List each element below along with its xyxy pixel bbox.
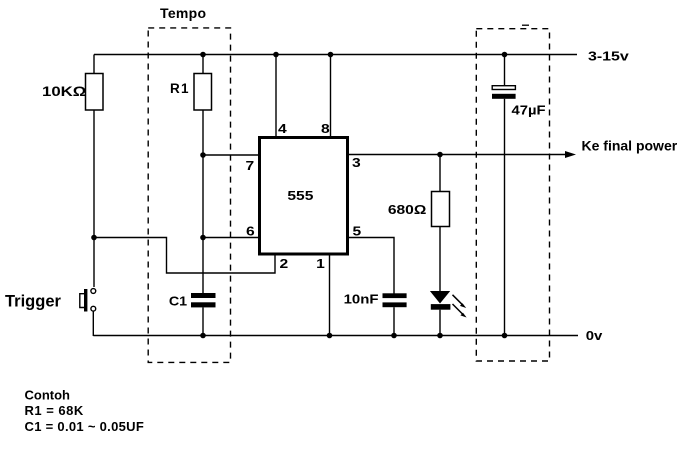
svg-text:R1: R1: [170, 81, 190, 96]
junction node rail/R1: [200, 52, 206, 58]
resistor 10K ohm: [86, 74, 104, 111]
svg-text:R1 = 68K: R1 = 68K: [25, 403, 84, 418]
svg-text:C1 = 0.01 ~ 0.05UF: C1 = 0.01 ~ 0.05UF: [25, 419, 145, 434]
junction node trigger/pin2 branch: [91, 235, 97, 241]
wire R1 to C1 vertical: [202, 110, 204, 294]
svg-text:6: 6: [246, 224, 255, 238]
junction node pin1/0v: [327, 333, 333, 339]
resistor R1: [194, 74, 212, 111]
svg-text:Ke final power: Ke final power: [582, 138, 678, 154]
svg-text:4: 4: [278, 122, 287, 136]
junction node pin4/rail: [273, 52, 279, 58]
wire pin 6: [203, 237, 259, 239]
wire left branch top (rail to 10K resistor): [93, 55, 95, 74]
svg-text:3: 3: [352, 156, 361, 170]
arrowhead Ke final power: [565, 151, 576, 158]
pushbutton switch Trigger: bottom contact: [91, 306, 96, 311]
svg-text:C1: C1: [169, 294, 188, 308]
svg-text:0v: 0v: [586, 328, 603, 343]
wire trigger bottom to 0v rail: [92, 311, 94, 336]
svg-text:7: 7: [246, 159, 255, 173]
wire 10K resistor to trigger switch: [93, 110, 95, 287]
wire 47uF to 0v rail: [504, 99, 506, 336]
LED D1 light arrow 1: [453, 295, 467, 308]
LED D1 triangle: [430, 291, 450, 304]
wire trigger node to pin 2 (steps down): [94, 238, 275, 274]
svg-text:Tempo: Tempo: [160, 5, 206, 21]
capacitor C1 top plate: [191, 293, 216, 298]
capacitor C2 47uF negative plate (solid): [492, 94, 516, 99]
wire 10nF to 0v rail: [393, 307, 395, 336]
junction node pin3/680: [437, 152, 443, 158]
svg-text:3-15v: 3-15v: [588, 50, 630, 64]
wire top supply rail 3-15v: [94, 54, 577, 56]
junction node C1/0v: [200, 333, 206, 339]
wire pin 8 to rail: [330, 55, 332, 138]
wire rail to 47uF: [504, 55, 506, 86]
junction node pin7: [200, 152, 206, 158]
junction node rail/47uF: [502, 52, 508, 58]
wire pin 1 to 0v rail: [329, 254, 331, 336]
svg-text:2: 2: [280, 257, 289, 271]
junction node pin8/rail: [328, 52, 334, 58]
wire bottom rail 0v: [93, 335, 578, 337]
Tempo group dashed box: [148, 28, 230, 363]
svg-text:47µF: 47µF: [512, 102, 546, 117]
wire 680 resistor to LED: [439, 227, 441, 292]
svg-text:680Ω: 680Ω: [388, 203, 427, 217]
LED D1 cathode bar: [431, 304, 451, 310]
junction node 10nF/0v: [391, 333, 397, 339]
capacitor C1 bottom plate: [191, 302, 216, 307]
svg-text:555: 555: [287, 189, 313, 203]
svg-text:Trigger: Trigger: [5, 293, 62, 311]
svg-text:Contoh: Contoh: [25, 388, 71, 403]
wire C1 to 0v rail: [202, 307, 204, 336]
wire pin 7: [203, 154, 259, 156]
pushbutton switch Trigger: top contact: [91, 289, 96, 294]
svg-text:5: 5: [353, 224, 362, 238]
svg-text:10KΩ: 10KΩ: [42, 84, 86, 99]
svg-text:1: 1: [316, 257, 325, 271]
wire rail to R1: [202, 55, 204, 74]
op-amp timer IC U1 555 body: [260, 138, 348, 255]
stray dash artifact above right box: [522, 24, 529, 26]
junction node pin6: [200, 235, 206, 241]
capacitor C2 47uF positive plate (outline): [492, 86, 515, 90]
resistor 680 ohm: [432, 192, 450, 227]
capacitor 10nF top plate: [383, 293, 407, 298]
wire pin 3 output: [348, 154, 566, 156]
svg-text:8: 8: [321, 122, 330, 136]
wire pin3 node to 680 resistor: [439, 155, 441, 192]
junction node 47uF/0v: [502, 333, 508, 339]
right group dashed box: [476, 29, 549, 361]
LED D1 light arrow 2: [453, 304, 467, 318]
wire LED to 0v rail: [439, 310, 441, 336]
wire pin 4 to rail: [275, 55, 277, 138]
pushbutton switch Trigger: actuator bar: [84, 289, 87, 312]
svg-text:10nF: 10nF: [344, 291, 379, 306]
pushbutton switch Trigger: plunger bracket: [80, 294, 84, 308]
junction node LED/0v: [437, 333, 443, 339]
capacitor 10nF bottom plate: [383, 302, 407, 307]
wire pin 5 to 10nF: [348, 238, 394, 294]
